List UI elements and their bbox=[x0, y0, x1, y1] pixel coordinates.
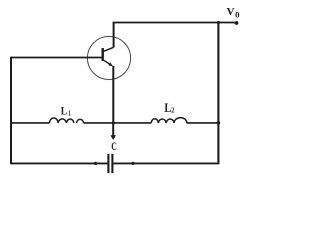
node: bottom left dot bbox=[94, 162, 97, 165]
node: output terminal dot bbox=[235, 21, 239, 25]
svg-text:0: 0 bbox=[235, 11, 239, 20]
label L2 bbox=[164, 100, 174, 115]
transistor Q1 circle bbox=[87, 36, 130, 79]
wire: emitter vertical lead bbox=[112, 66, 114, 123]
node: top right junction bbox=[217, 21, 220, 24]
inductor L1 coil bbox=[50, 118, 84, 123]
node: emitter to tap junction bbox=[112, 121, 115, 124]
wire: mid horizontal left segment bbox=[11, 122, 50, 124]
capacitor C left plate bbox=[107, 154, 109, 173]
wire: tap stub down to C bbox=[112, 123, 114, 136]
wire: top horizontal to output bbox=[113, 22, 237, 24]
transistor Q1 emitter arrowhead bbox=[108, 63, 113, 67]
transistor Q1 base bar bbox=[101, 48, 103, 61]
wire: collector vertical lead bbox=[113, 23, 115, 48]
svg-text:V: V bbox=[227, 7, 235, 18]
svg-text:1: 1 bbox=[68, 109, 71, 118]
wire: mid horizontal center segment bbox=[84, 122, 152, 124]
wire: bottom horizontal right segment bbox=[113, 162, 218, 164]
svg-text:2: 2 bbox=[171, 106, 174, 115]
node: right mid junction bbox=[217, 121, 221, 125]
transistor Q1 collector stroke bbox=[104, 47, 114, 51]
node: bottom right dot bbox=[131, 162, 134, 165]
wire: right vertical bbox=[217, 23, 219, 165]
wire: bottom horizontal left segment bbox=[11, 162, 108, 164]
label L1 bbox=[61, 104, 71, 118]
wire: left vertical bbox=[10, 57, 12, 165]
svg-text:L: L bbox=[61, 104, 67, 118]
capacitor C right plate bbox=[111, 154, 113, 173]
wire: base lead bbox=[11, 57, 102, 59]
inductor L2 coil bbox=[151, 118, 187, 123]
wire: mid horizontal right segment bbox=[187, 122, 218, 124]
svg-text:C: C bbox=[111, 139, 117, 153]
transistor Q1 emitter stroke bbox=[104, 60, 111, 64]
label V0 bbox=[227, 7, 240, 20]
arrowhead pointing at capacitor C bbox=[110, 135, 116, 140]
